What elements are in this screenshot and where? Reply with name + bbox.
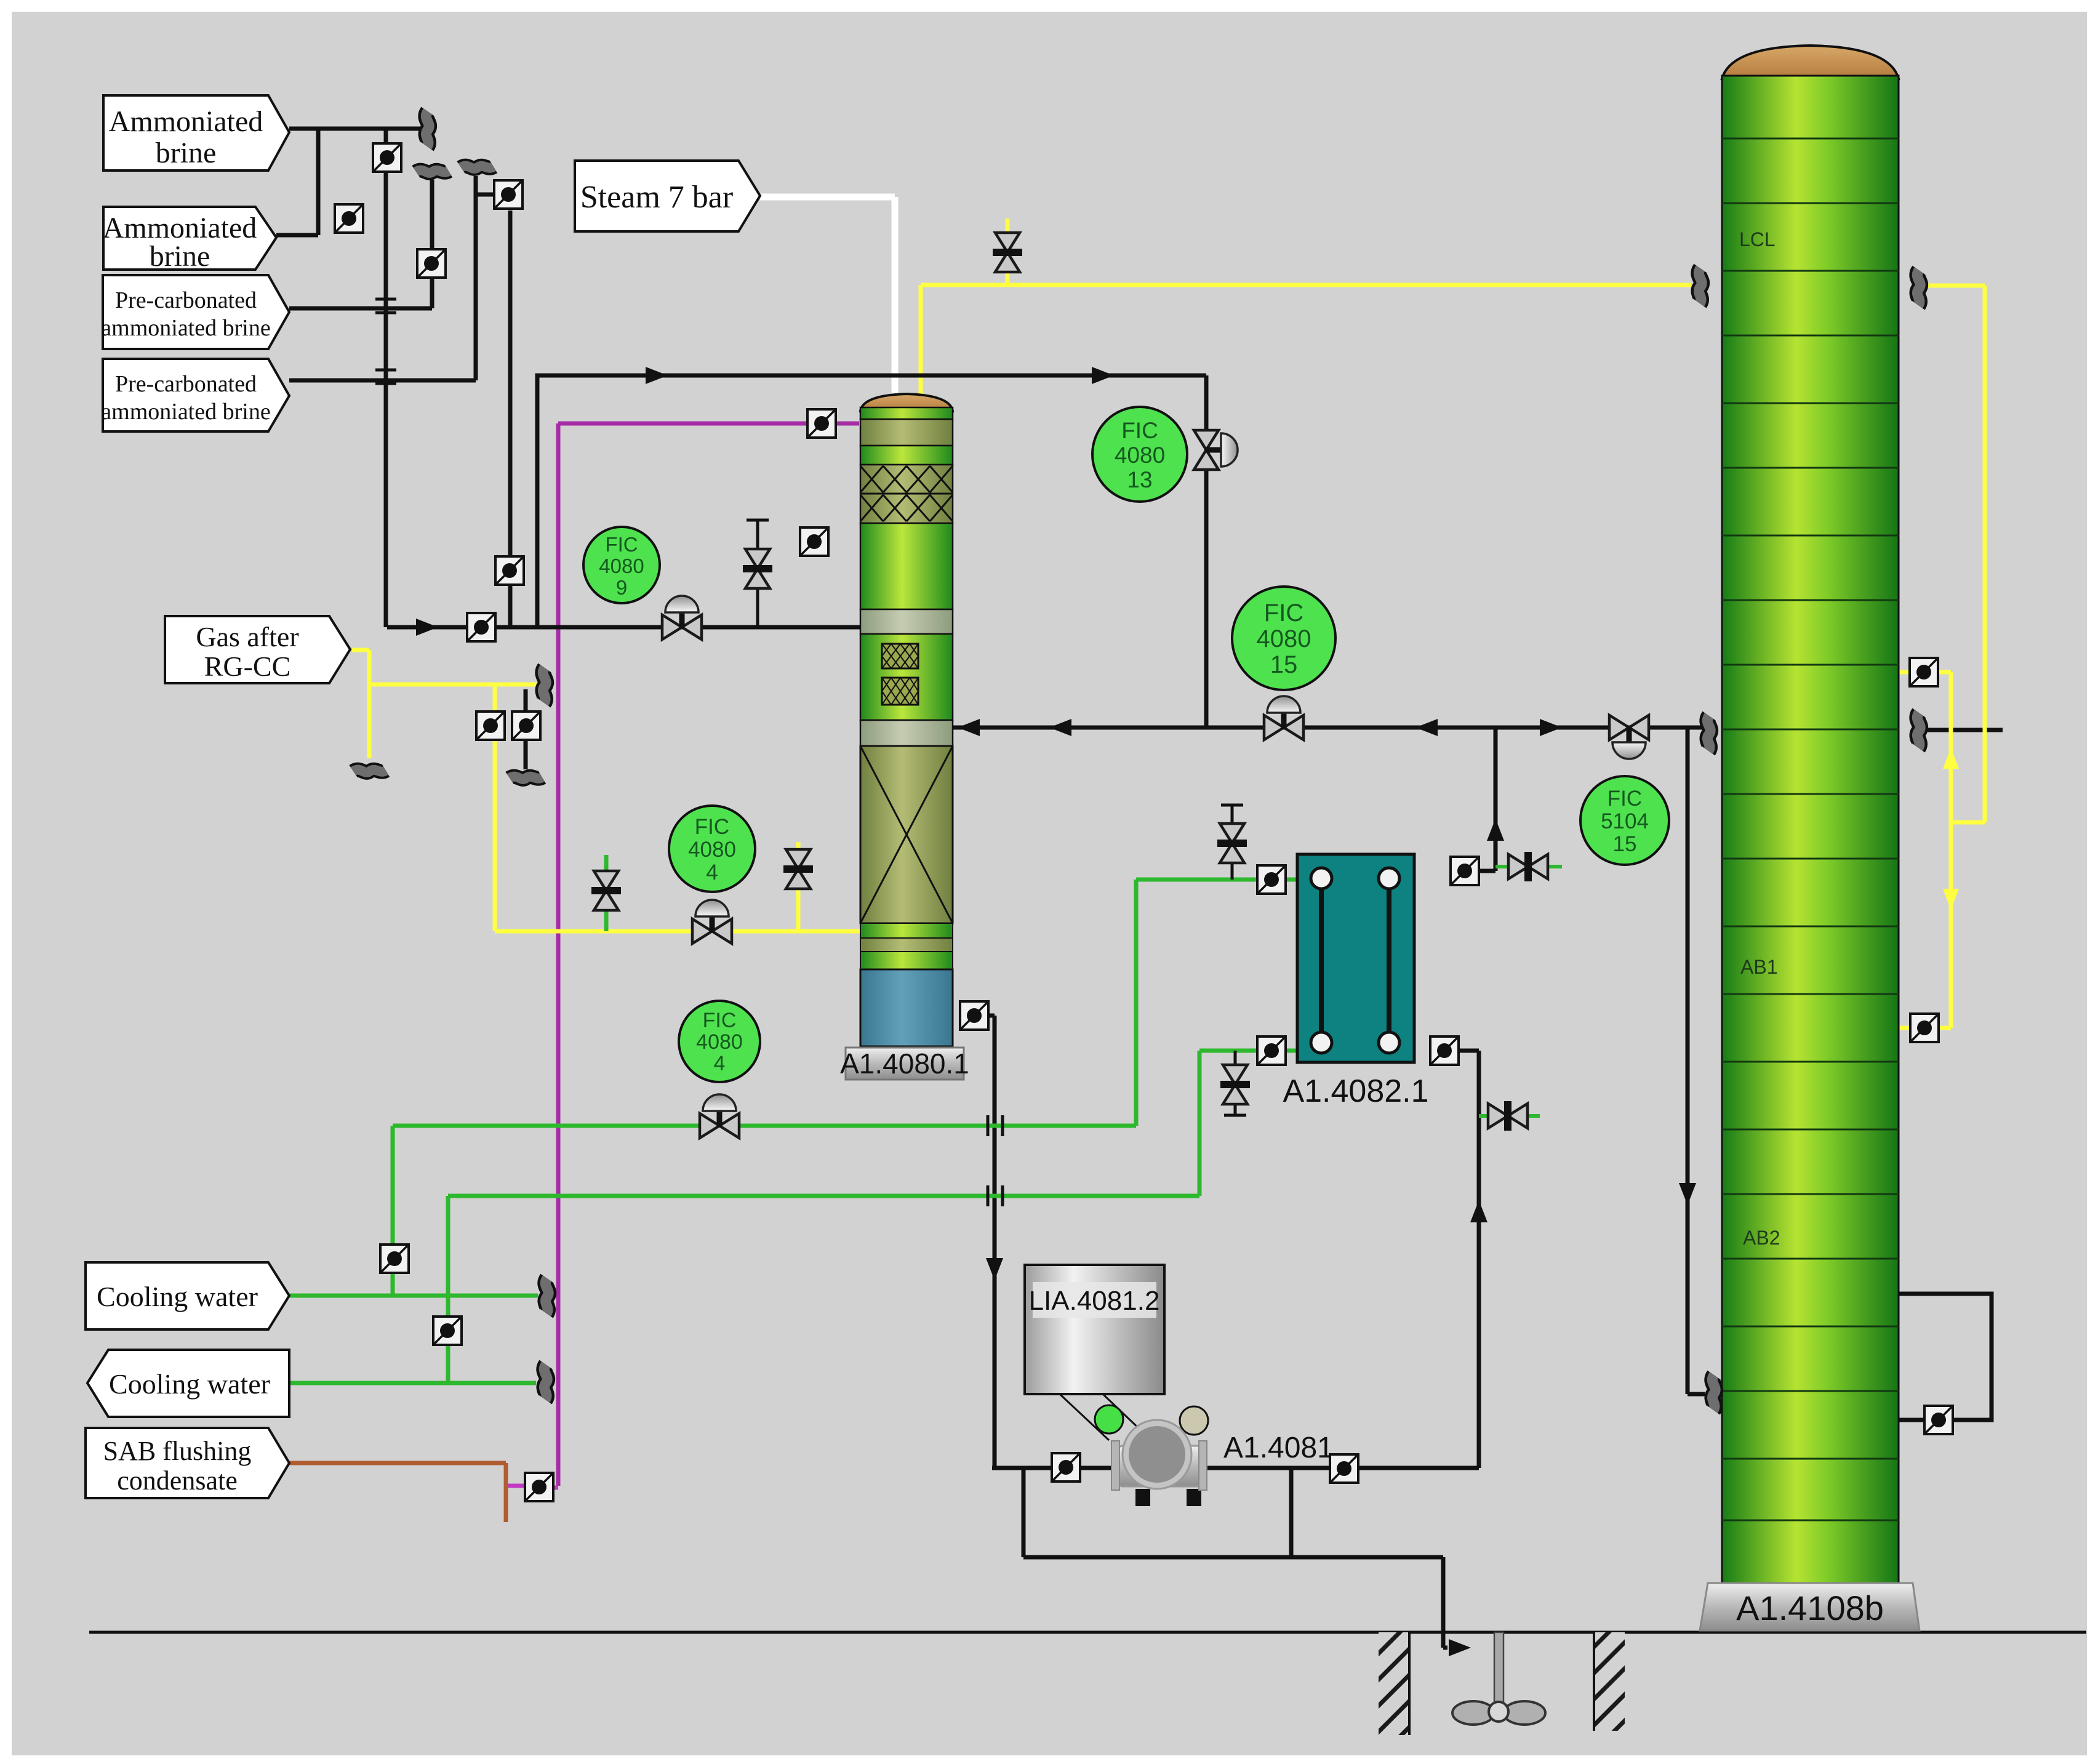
break symbol pre-carb 2 top bbox=[461, 166, 494, 169]
svg-text:4080: 4080 bbox=[688, 838, 736, 862]
wire green supply riser to HX top bbox=[393, 880, 1256, 1296]
wire purple link at SAB instrument bbox=[507, 1486, 558, 1488]
indicator lamp beige bbox=[1180, 1406, 1208, 1435]
heat exchanger A1.4082.1 bbox=[1297, 854, 1414, 1062]
wire yellow drop and run into column bbox=[495, 684, 860, 931]
absorber A1.4108b dome bbox=[1722, 46, 1899, 79]
svg-text:4080: 4080 bbox=[1115, 443, 1165, 468]
column A1.4080.1 dome bbox=[860, 394, 953, 411]
arrow right on line y1182 bbox=[1540, 719, 1562, 736]
svg-text:15: 15 bbox=[1270, 651, 1298, 678]
wire green stub valve B3 bbox=[604, 855, 609, 931]
svg-text:brine: brine bbox=[150, 240, 210, 273]
svg-text:FIC: FIC bbox=[1121, 418, 1158, 443]
control valve FIC-4080-15 on line y1182 bbox=[1264, 696, 1303, 740]
svg-text:FIC: FIC bbox=[1608, 787, 1642, 811]
break symbol yellow stub bottom bbox=[353, 770, 386, 772]
arrow left on line y1182 middle bbox=[1415, 719, 1438, 736]
valve B8 HX bottom outlet bbox=[1488, 1101, 1527, 1131]
junction crossing ticks green supply bbox=[988, 1115, 1003, 1136]
svg-text:AB1: AB1 bbox=[1740, 956, 1777, 978]
column A1.4080.1 upper shell bbox=[860, 523, 953, 609]
wire black stub with break below yellow header bbox=[524, 689, 528, 769]
arrow left on line y1182 at column edge bbox=[958, 719, 980, 736]
absorber A1.4108b shell bbox=[1722, 76, 1899, 1583]
column A1.4080.1 blue sump bbox=[860, 969, 953, 1046]
flag Ammoniated brine 1 bbox=[103, 95, 289, 170]
svg-text:Pre-carbonated: Pre-carbonated bbox=[115, 287, 257, 313]
arrow on top header 1 bbox=[646, 367, 668, 384]
valve B1 on yellow stub bbox=[993, 233, 1022, 272]
break symbol absorber right black stub bbox=[1917, 713, 1920, 748]
FIC 4080 4 lower bbox=[679, 1001, 760, 1082]
wire yellow stub valve B1 bbox=[1006, 218, 1010, 285]
svg-text:Pre-carbonated: Pre-carbonated bbox=[115, 371, 257, 397]
wire black stub valve B5 above green bbox=[1221, 805, 1243, 880]
instrument I6 on feed line bbox=[467, 613, 495, 641]
valve B5 above HX green inlet bbox=[1217, 824, 1247, 863]
wire ammoniated brine 2 riser bbox=[276, 129, 318, 235]
control valve FIC-4080-9 on feed line bbox=[662, 596, 702, 639]
arrow on main feed line bbox=[416, 619, 438, 636]
break symbol brine header bbox=[426, 111, 429, 146]
arrow on top header 2 bbox=[1092, 367, 1114, 384]
flag Cooling water return bbox=[87, 1350, 289, 1417]
column A1.4080.1 lower gray band bbox=[860, 720, 953, 746]
wire column bottoms to pump suction bbox=[988, 1016, 995, 1468]
wire pre-carbonated brine 2 bbox=[289, 176, 476, 380]
svg-text:AB2: AB2 bbox=[1743, 1227, 1780, 1249]
instrument I7 on yellow drop bbox=[476, 712, 505, 740]
instrument I2 brine 2 bbox=[335, 204, 363, 233]
wire absorber right stub line bbox=[1926, 728, 2003, 732]
arrow right on sewer outlet bbox=[1449, 1639, 1471, 1656]
arrow left on line y1182 near column bbox=[1049, 719, 1071, 736]
arrow up on HX outlet drop bbox=[1470, 1200, 1487, 1222]
svg-text:9: 9 bbox=[616, 576, 627, 599]
break symbol cooling return end bbox=[544, 1365, 547, 1400]
wire drain drop middle bbox=[1289, 1468, 1294, 1557]
wire yellow stub valve B4 bbox=[796, 842, 801, 931]
wire vertical from instrument D bbox=[508, 210, 513, 627]
instrument I1 on brine header bbox=[373, 143, 401, 172]
flag Cooling water supply bbox=[86, 1262, 289, 1329]
svg-text:4080: 4080 bbox=[599, 555, 644, 577]
valve B6 below HX green inlet bbox=[1220, 1065, 1250, 1104]
wire HX top right green stubs bbox=[1495, 865, 1562, 868]
arrow up on branch x2430 bbox=[1487, 819, 1504, 841]
label plate A1.4080.1 bbox=[846, 1048, 964, 1080]
wire HX bottom right run down to pump line bbox=[1459, 1051, 1479, 1468]
flag Pre-carbonated ammoniated brine 2 bbox=[103, 359, 289, 431]
instrument I13 HX top right bbox=[1451, 857, 1479, 885]
FIC 4080 9 bbox=[583, 527, 660, 603]
wire main line y1182 column to absorber bbox=[953, 726, 1708, 730]
svg-text:ammoniated brine: ammoniated brine bbox=[101, 399, 270, 425]
FIC 4080 4 upper bbox=[669, 806, 755, 892]
control valve FIC-4080-4 on green line bbox=[700, 1094, 739, 1138]
FIC 4080 13 bbox=[1092, 407, 1187, 502]
arrow down on column bottoms line bbox=[986, 1258, 1003, 1280]
wire main feed line into column A1.4080.1 bbox=[387, 625, 860, 630]
instrument I11 column bottoms bbox=[960, 1001, 988, 1030]
instrument I5 on feed riser bbox=[495, 556, 524, 585]
wire yellow gas-after-RG-CC header bbox=[352, 650, 537, 684]
pump A1.4081 bbox=[1135, 1489, 1150, 1506]
junction crossing ticks green return bbox=[988, 1185, 1003, 1206]
wire green return riser to HX bottom bbox=[448, 1051, 1256, 1383]
wire green cooling water supply bbox=[289, 1294, 538, 1298]
junction crossing ticks pre-carb 2 bbox=[375, 370, 396, 383]
FIC 4080 15 bbox=[1232, 587, 1335, 690]
svg-text:FIC: FIC bbox=[605, 533, 638, 556]
wire LIA signal links bbox=[1060, 1394, 1155, 1443]
valve B3 on green stub bbox=[591, 871, 621, 910]
control valve FIC-5104-15 dome down bbox=[1609, 715, 1649, 759]
hatched foundation post left bbox=[1379, 1632, 1409, 1735]
FIC 5104 15 bbox=[1580, 776, 1669, 865]
wire green HX top inlet stub bbox=[1287, 878, 1297, 882]
instrument I17 pump discharge bbox=[1330, 1454, 1358, 1483]
wire brown SAB flushing condensate bbox=[289, 1463, 506, 1522]
instrument I23 absorber yellow return bbox=[1910, 1014, 1939, 1042]
svg-text:FIC: FIC bbox=[1264, 599, 1303, 627]
svg-text:LCL: LCL bbox=[1739, 228, 1776, 251]
level indicator box LIA.4081.2 bbox=[1025, 1265, 1164, 1394]
wire riser to FIC-4080-13 valve bbox=[1204, 375, 1209, 728]
column A1.4080.1 mid shell with mini packings bbox=[860, 634, 953, 720]
svg-text:Gas after: Gas after bbox=[196, 621, 298, 652]
indicator lamp green bbox=[1095, 1405, 1123, 1433]
svg-text:4: 4 bbox=[714, 1052, 726, 1075]
wire green cooling water return bbox=[289, 1381, 536, 1385]
svg-text:Ammoniated: Ammoniated bbox=[109, 105, 263, 138]
valve B7 HX top outlet bbox=[1508, 852, 1548, 881]
control valve FIC-4080-4 on yellow line bbox=[692, 900, 732, 944]
wire absorber left downcomer bbox=[1688, 728, 1705, 1394]
svg-text:A1.4108b: A1.4108b bbox=[1736, 1589, 1884, 1627]
valve B4 on yellow stub bbox=[783, 849, 813, 889]
instrument I9 on purple line bbox=[807, 409, 836, 438]
wire link to instrument D bbox=[476, 193, 493, 197]
wire pump suction line bbox=[992, 1466, 1479, 1470]
column A1.4080.1 bottom stripes bbox=[860, 923, 953, 938]
wire drain header to sewer bbox=[1023, 1557, 1447, 1648]
absorber tray lines bbox=[1722, 138, 1899, 1520]
instrument I10 near FIC-4080-9 bbox=[800, 527, 828, 556]
flag Gas after RG-CC bbox=[165, 616, 350, 683]
wire yellow absorber side draw bbox=[1899, 672, 1951, 1028]
break symbol line y1182 at absorber bbox=[1707, 716, 1710, 751]
wire absorber right recirculation loop bbox=[1897, 1294, 1992, 1420]
svg-text:15: 15 bbox=[1613, 832, 1637, 856]
svg-text:LIA.4081.2: LIA.4081.2 bbox=[1029, 1286, 1160, 1316]
control valve FIC-4080-13 dome right bbox=[1194, 430, 1238, 470]
wire yellow top gas line to absorber bbox=[921, 285, 1691, 400]
valve B2 vent near FIC-4080-9 bbox=[743, 549, 772, 588]
wire yellow stub to break bbox=[367, 684, 372, 758]
svg-text:RG-CC: RG-CC bbox=[204, 651, 291, 682]
instrument I21 absorber yellow draw bbox=[1910, 658, 1938, 686]
wire long vertical to column feed bbox=[384, 129, 388, 627]
wire black stub valve B6 below green bbox=[1224, 1051, 1246, 1115]
column A1.4080.1 big packed bed bbox=[860, 746, 953, 923]
svg-text:Steam 7 bar: Steam 7 bar bbox=[580, 180, 733, 215]
svg-text:condensate: condensate bbox=[117, 1465, 237, 1496]
svg-text:Cooling water: Cooling water bbox=[97, 1281, 258, 1312]
instrument I3 pre-carb 1 riser bbox=[417, 249, 446, 278]
wire top gas header to right bbox=[537, 375, 1206, 627]
instrument I14 HX bottom left bbox=[1257, 1036, 1286, 1065]
wire vent stub near FIC-4080-9 bbox=[747, 520, 769, 627]
hatched foundation post right bbox=[1594, 1632, 1625, 1731]
wire purple wash line bbox=[558, 423, 859, 1486]
arrow down on absorber downcomer bbox=[1679, 1183, 1696, 1205]
svg-text:brine: brine bbox=[156, 137, 217, 169]
break symbol absorber left bottom bbox=[1712, 1375, 1715, 1410]
svg-text:Cooling water: Cooling water bbox=[109, 1368, 270, 1400]
wire ammoniated brine 1 header bbox=[289, 127, 422, 131]
arrow up yellow absorber riser bbox=[1943, 748, 1959, 769]
flag SAB flushing condensate bbox=[86, 1428, 289, 1498]
instrument I8 on black stub bbox=[512, 712, 540, 740]
wire yellow right of absorber top bbox=[1926, 286, 1985, 822]
instrument I4 pre-carb 2 bbox=[494, 180, 522, 209]
svg-text:4: 4 bbox=[706, 860, 718, 884]
instrument I12 HX top left bbox=[1257, 865, 1286, 894]
pedestal A1.4108b bbox=[1700, 1583, 1920, 1630]
column A1.4080.1 shell section top bands bbox=[860, 407, 953, 419]
flag Ammoniated brine 2 bbox=[103, 207, 276, 270]
svg-text:A1.4082.1: A1.4082.1 bbox=[1283, 1073, 1428, 1109]
break symbol yellow line at absorber left bbox=[1699, 268, 1702, 303]
wire HX bottom right green stubs bbox=[1479, 1114, 1540, 1118]
agitator bbox=[1494, 1632, 1503, 1709]
instrument I15 HX bottom right bbox=[1430, 1036, 1459, 1065]
svg-text:SAB flushing: SAB flushing bbox=[103, 1436, 252, 1466]
svg-text:5104: 5104 bbox=[1601, 809, 1649, 833]
wire drain drop left bbox=[1022, 1468, 1026, 1557]
svg-text:A1.4080.1: A1.4080.1 bbox=[840, 1048, 969, 1080]
instrument I16 pump suction bbox=[1052, 1453, 1080, 1481]
flag Pre-carbonated ammoniated brine 1 bbox=[103, 275, 289, 349]
ground line bbox=[89, 1631, 2086, 1634]
break symbol black stub bottom bbox=[510, 777, 542, 779]
arrow down yellow absorber drop bbox=[1943, 889, 1959, 910]
svg-text:ammoniated brine: ammoniated brine bbox=[101, 315, 270, 341]
wire steam 7 bar line bbox=[760, 197, 895, 400]
break symbol yellow header end bbox=[543, 668, 546, 703]
break symbol yellow line absorber right bbox=[1917, 270, 1920, 305]
flag Steam 7 bar bbox=[575, 161, 760, 231]
instrument I18 SAB purple bbox=[525, 1473, 553, 1501]
instrument I20 cooling return riser bbox=[433, 1317, 462, 1345]
svg-text:FIC: FIC bbox=[703, 1009, 737, 1032]
instrument I22 absorber loop bbox=[1924, 1406, 1953, 1434]
break symbol cooling supply end bbox=[545, 1278, 548, 1313]
wire pre-carbonated brine 1 bbox=[289, 180, 432, 308]
wire branch x2430 down to valve row bbox=[1479, 728, 1495, 871]
wire green HX bottom inlet stub bbox=[1287, 1049, 1297, 1053]
svg-text:FIC: FIC bbox=[695, 815, 729, 839]
column A1.4080.1 gray support band bbox=[860, 609, 953, 634]
svg-text:4080: 4080 bbox=[696, 1030, 743, 1054]
junction crossing ticks pre-carb 1 bbox=[375, 299, 396, 313]
svg-text:A1.4081: A1.4081 bbox=[1223, 1432, 1334, 1464]
instrument I19 cooling supply riser bbox=[380, 1245, 409, 1273]
break symbol pre-carb 1 top bbox=[416, 170, 449, 173]
column A1.4080.1 structured packing top bbox=[860, 465, 953, 523]
svg-text:13: 13 bbox=[1127, 467, 1152, 492]
svg-text:4080: 4080 bbox=[1257, 625, 1311, 652]
